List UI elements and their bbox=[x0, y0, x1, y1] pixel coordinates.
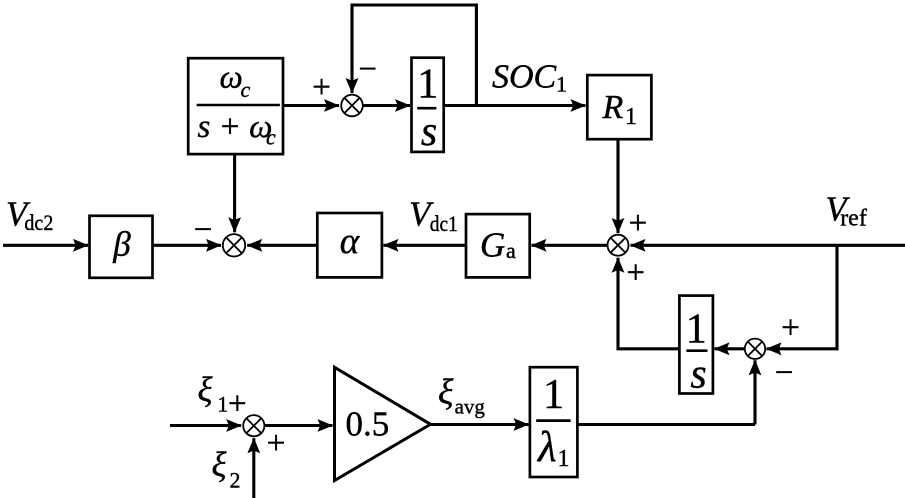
wire xi2 up into sum S5 bbox=[252, 438, 255, 498]
svg-text:c: c bbox=[266, 125, 276, 150]
svg-text:ref: ref bbox=[840, 206, 867, 232]
svg-text:β: β bbox=[112, 224, 131, 263]
svg-text:SOC: SOC bbox=[492, 58, 557, 95]
svg-text:0.5: 0.5 bbox=[346, 405, 390, 444]
wire triangle to lambda block bbox=[431, 423, 529, 426]
svg-text:s: s bbox=[421, 109, 437, 155]
svg-text:s + ω: s + ω bbox=[198, 109, 273, 145]
block integrator 1/s top bbox=[412, 58, 444, 152]
svg-text:α: α bbox=[340, 221, 361, 262]
wire Vdc2 input to beta bbox=[3, 244, 88, 247]
svg-text:ω: ω bbox=[220, 60, 243, 96]
block beta bbox=[90, 216, 153, 278]
svg-text:2: 2 bbox=[230, 468, 241, 493]
svg-text:c: c bbox=[241, 77, 251, 102]
wire feedback loop top bbox=[352, 5, 476, 106]
block Ga bbox=[466, 214, 530, 277]
fraction bar in lambda block bbox=[536, 419, 570, 422]
sum junction S1 bbox=[341, 95, 363, 117]
svg-text:+: + bbox=[267, 425, 286, 461]
fraction bar in wc block bbox=[197, 104, 280, 107]
svg-text:+: + bbox=[629, 205, 648, 241]
svg-text:1: 1 bbox=[217, 391, 228, 416]
wire Ga to alpha bbox=[384, 244, 467, 247]
sum junction S5 bbox=[243, 415, 264, 436]
svg-text:dc2: dc2 bbox=[24, 210, 53, 235]
wire sum S2 to Ga bbox=[532, 244, 608, 247]
svg-text:ξ: ξ bbox=[198, 370, 213, 409]
wire sum S4 to right 1/s block bbox=[715, 347, 746, 350]
block alpha bbox=[317, 213, 382, 277]
wire Vref branch down to sum S4 bbox=[767, 245, 838, 348]
block integrator 1/s right bbox=[679, 296, 713, 394]
fraction bar in right 1/s block bbox=[686, 349, 707, 352]
svg-text:1: 1 bbox=[625, 104, 637, 130]
svg-text:−: − bbox=[358, 51, 377, 87]
svg-text:+: + bbox=[781, 310, 800, 346]
svg-text:s: s bbox=[690, 352, 706, 398]
svg-text:+: + bbox=[312, 69, 331, 105]
svg-text:G: G bbox=[480, 225, 505, 264]
gain triangle 0.5 bbox=[335, 367, 431, 480]
wire S1 to 1/s block bbox=[363, 104, 411, 107]
wire lambda output to corner bbox=[577, 423, 755, 426]
wire sum S5 to gain triangle bbox=[264, 424, 332, 427]
wire input to sum S1 from wc block bbox=[283, 104, 339, 107]
block 1/lambda1 bbox=[530, 367, 578, 477]
svg-text:avg: avg bbox=[455, 394, 486, 418]
svg-text:1: 1 bbox=[558, 446, 570, 472]
wire right 1/s output up to sum S2 bbox=[618, 258, 679, 349]
wire beta to sum S3 bbox=[153, 244, 222, 247]
svg-text:λ: λ bbox=[536, 424, 557, 471]
svg-text:a: a bbox=[506, 238, 516, 263]
wire alpha to sum S3 bbox=[247, 244, 317, 247]
svg-text:ξ: ξ bbox=[212, 445, 227, 484]
svg-text:dc1: dc1 bbox=[430, 211, 458, 236]
svg-text:+: + bbox=[626, 255, 645, 291]
wire R1 down to sum S2 bbox=[616, 139, 619, 233]
fraction bar in top 1/s block bbox=[417, 107, 436, 110]
sum junction S3 bbox=[223, 234, 245, 256]
svg-text:+: + bbox=[228, 386, 247, 422]
svg-text:R: R bbox=[602, 89, 624, 126]
sum junction S2 bbox=[608, 235, 629, 256]
svg-text:1: 1 bbox=[543, 372, 564, 418]
wire lambda line up to sum S4 bbox=[753, 360, 756, 424]
svg-text:1: 1 bbox=[417, 61, 438, 107]
svg-text:−: − bbox=[775, 355, 794, 391]
wire Vref input to sum S2 bbox=[631, 244, 905, 247]
wire wc block down to sum S3 bbox=[233, 154, 236, 232]
wire 1/s output to R1 bbox=[444, 104, 586, 107]
svg-text:1: 1 bbox=[686, 306, 707, 352]
sum junction S4 bbox=[745, 339, 765, 359]
svg-text:−: − bbox=[194, 212, 213, 248]
svg-text:1: 1 bbox=[556, 72, 567, 97]
block wc/(s+wc) bbox=[188, 58, 283, 154]
wire xi1 input to sum S5 bbox=[170, 424, 241, 427]
svg-text:ξ: ξ bbox=[438, 372, 454, 412]
block R1 bbox=[587, 75, 651, 139]
